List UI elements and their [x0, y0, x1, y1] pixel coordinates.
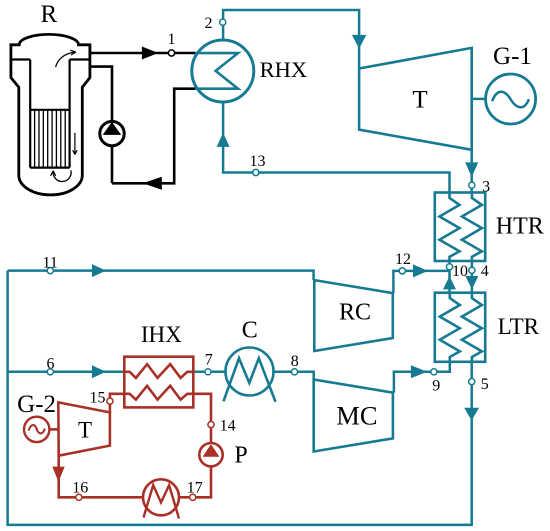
svg-text:T: T	[78, 417, 92, 442]
svg-text:14: 14	[220, 417, 236, 434]
svg-text:2: 2	[205, 15, 213, 32]
svg-text:17: 17	[187, 479, 203, 496]
svg-text:11: 11	[42, 254, 57, 271]
svg-text:4: 4	[481, 263, 489, 280]
svg-text:G-1: G-1	[493, 43, 532, 70]
svg-text:RHX: RHX	[260, 57, 308, 82]
svg-text:10: 10	[452, 263, 468, 280]
svg-text:C: C	[242, 318, 258, 344]
svg-text:1: 1	[168, 31, 176, 48]
svg-text:7: 7	[205, 352, 213, 369]
svg-text:16: 16	[72, 479, 88, 496]
svg-text:MC: MC	[336, 401, 377, 431]
svg-text:R: R	[40, 1, 57, 28]
svg-text:9: 9	[432, 378, 440, 395]
svg-text:12: 12	[395, 251, 411, 268]
svg-text:G-2: G-2	[17, 391, 56, 418]
svg-text:HTR: HTR	[496, 214, 544, 240]
svg-text:P: P	[234, 443, 247, 469]
svg-text:IHX: IHX	[141, 322, 182, 347]
svg-text:13: 13	[250, 153, 266, 170]
svg-text:6: 6	[47, 355, 55, 372]
svg-text:RC: RC	[339, 300, 371, 326]
svg-text:T: T	[412, 86, 427, 113]
svg-text:LTR: LTR	[498, 314, 540, 339]
svg-text:3: 3	[482, 179, 490, 196]
svg-text:15: 15	[90, 390, 106, 407]
svg-text:5: 5	[481, 376, 489, 393]
svg-text:8: 8	[291, 353, 299, 370]
